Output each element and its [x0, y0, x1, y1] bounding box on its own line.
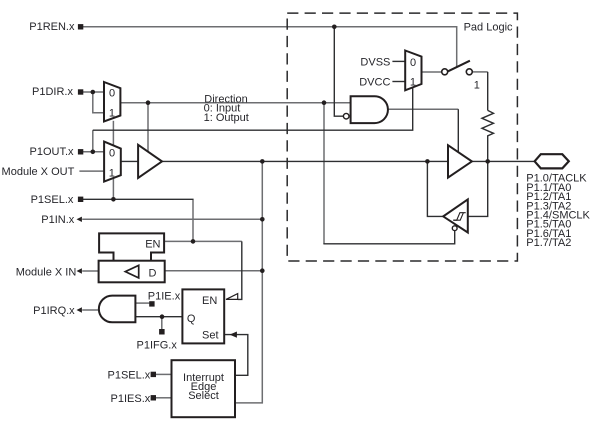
svg-text:P1IRQ.x: P1IRQ.x	[33, 305, 75, 317]
svg-text:1: 1	[410, 77, 416, 89]
svg-text:0: 0	[109, 88, 115, 100]
svg-text:Select: Select	[188, 390, 219, 402]
svg-text:Pad Logic: Pad Logic	[464, 22, 513, 34]
svg-text:Module X OUT: Module X OUT	[2, 166, 75, 178]
svg-text:1: 1	[474, 79, 480, 91]
svg-text:P1IFG.x: P1IFG.x	[137, 340, 178, 352]
svg-text:1: 1	[109, 108, 115, 120]
svg-text:EN: EN	[145, 238, 160, 250]
svg-text:P1IES.x: P1IES.x	[111, 393, 151, 405]
svg-text:D: D	[149, 267, 157, 279]
svg-text:Q: Q	[187, 313, 196, 325]
svg-text:EN: EN	[202, 295, 217, 307]
svg-text:P1SEL.x: P1SEL.x	[31, 194, 74, 206]
svg-text:0: 0	[109, 147, 115, 159]
svg-text:P1.7/TA2: P1.7/TA2	[526, 237, 571, 249]
svg-text:Module X IN: Module X IN	[16, 266, 77, 278]
svg-text:1: 1	[109, 167, 115, 179]
svg-text:Set: Set	[202, 330, 219, 342]
svg-text:P1REN.x: P1REN.x	[29, 21, 75, 33]
svg-text:P1IE.x: P1IE.x	[148, 290, 181, 302]
svg-text:DVCC: DVCC	[359, 77, 390, 89]
svg-text:0: 0	[410, 57, 416, 69]
svg-text:P1IN.x: P1IN.x	[41, 214, 75, 226]
svg-text:1: Output: 1: Output	[204, 112, 249, 124]
svg-text:P1DIR.x: P1DIR.x	[32, 86, 73, 98]
svg-text:P1SEL.x: P1SEL.x	[107, 369, 150, 381]
svg-text:P1OUT.x: P1OUT.x	[29, 146, 74, 158]
svg-text:DVSS: DVSS	[360, 57, 390, 69]
